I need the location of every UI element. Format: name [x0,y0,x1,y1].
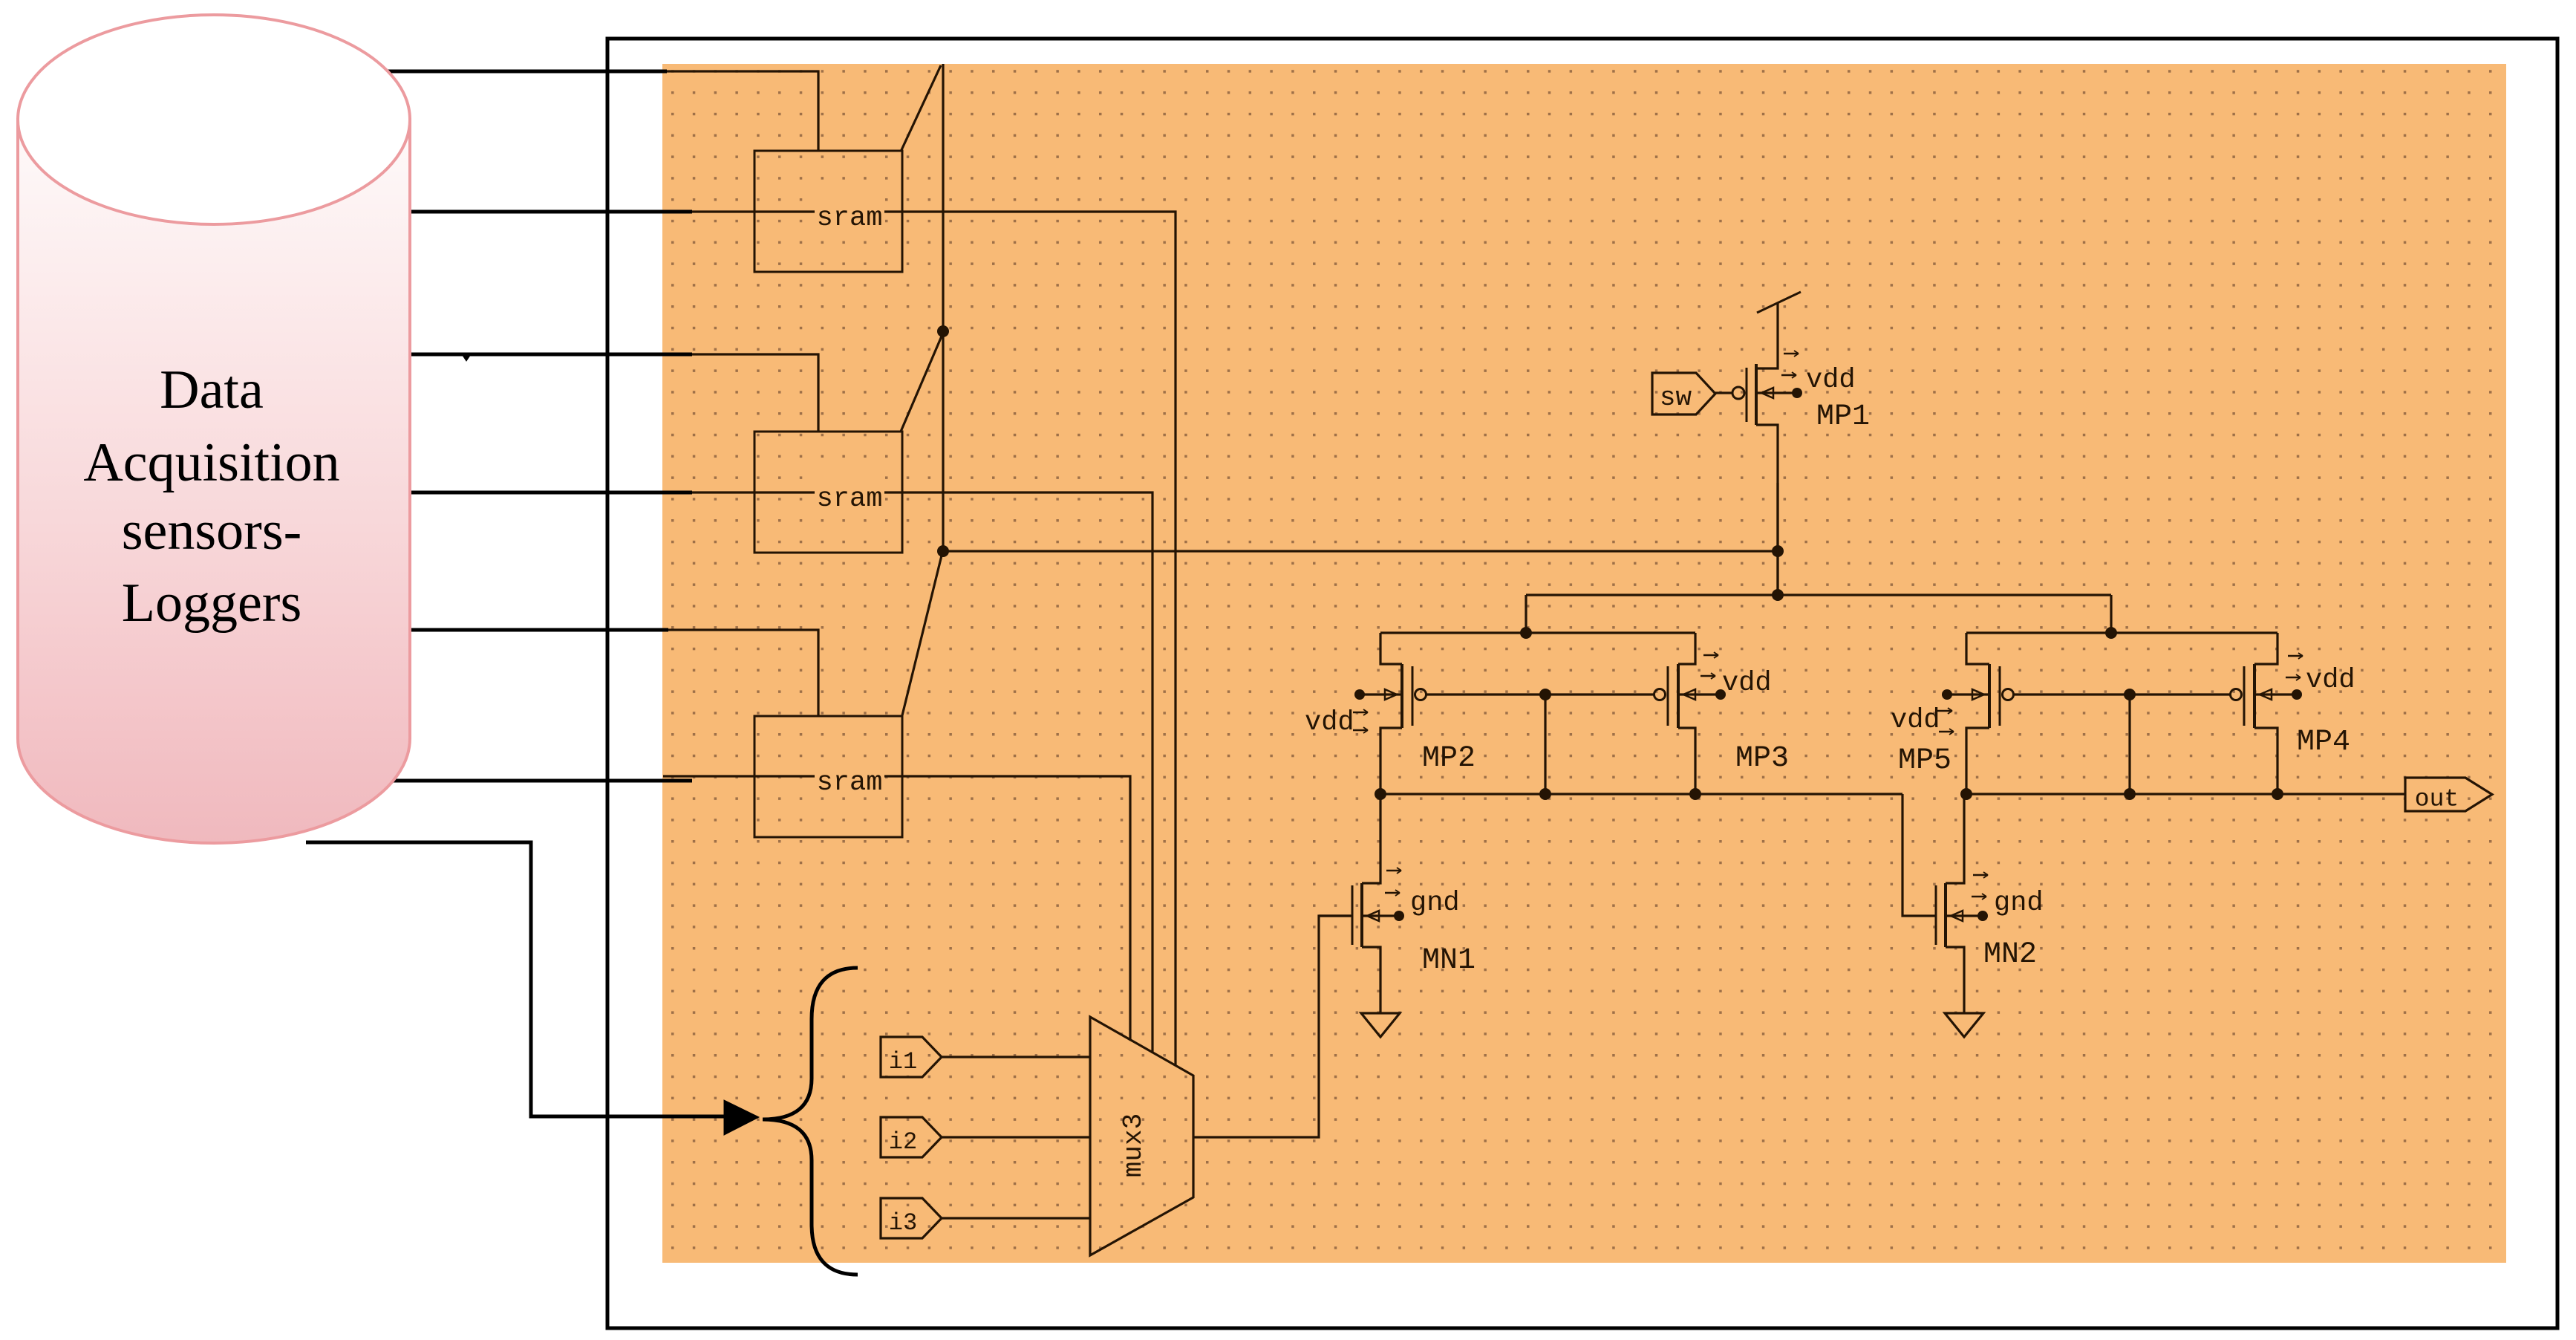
svg-text:gnd: gnd [1410,888,1460,919]
svg-text:MP3: MP3 [1735,742,1789,775]
svg-text:mux3: mux3 [1118,1113,1149,1177]
svg-text:sram: sram [817,767,883,799]
svg-text:vdd: vdd [1806,365,1856,396]
svg-text:Acquisition: Acquisition [83,432,339,493]
svg-text:vdd: vdd [2306,665,2355,696]
svg-text:sw: sw [1660,383,1692,413]
svg-text:vdd: vdd [1305,707,1354,738]
svg-text:i3: i3 [889,1209,917,1237]
svg-text:MP5: MP5 [1898,744,1951,778]
svg-text:vdd: vdd [1722,668,1772,699]
svg-text:out: out [2415,786,2459,813]
svg-text:i1: i1 [889,1048,917,1076]
svg-text:MP4: MP4 [2297,726,2350,759]
svg-text:sensors-: sensors- [122,501,302,562]
svg-text:MN2: MN2 [1983,938,2037,972]
svg-text:i2: i2 [889,1128,917,1156]
svg-text:Loggers: Loggers [122,573,302,634]
svg-text:vdd: vdd [1891,705,1940,736]
svg-text:sram: sram [817,484,883,515]
svg-text:Data: Data [160,360,264,420]
svg-text:MP1: MP1 [1816,400,1870,434]
svg-text:MN1: MN1 [1422,944,1476,978]
svg-text:sram: sram [817,203,883,234]
svg-text:gnd: gnd [1994,888,2044,919]
svg-text:MP2: MP2 [1422,742,1476,775]
